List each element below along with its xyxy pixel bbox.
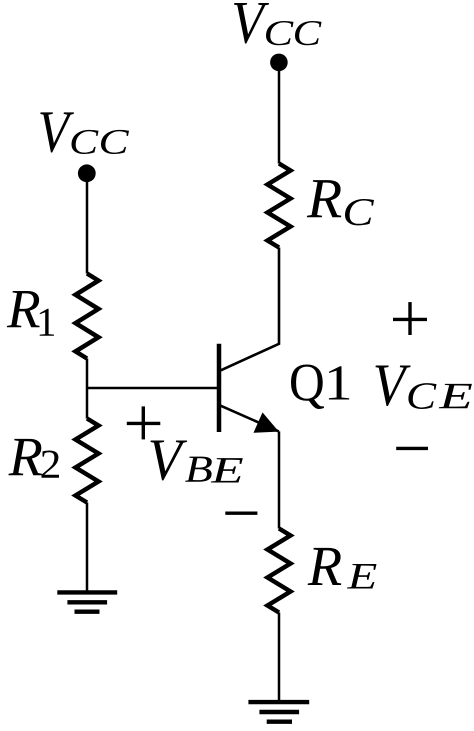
label VBE — [151, 441, 243, 483]
net VCC label (left) — [40, 112, 129, 154]
ground (right) — [248, 702, 309, 722]
resistor RE label — [308, 548, 377, 589]
net VCC label (top) — [234, 3, 322, 45]
transistor Q1 emitter arrow — [254, 412, 279, 432]
resistor RE — [268, 529, 291, 613]
net VCC terminal dot (left) — [78, 164, 96, 182]
wire VCC(left) to R1 top — [86, 173, 89, 274]
net VCC terminal dot (top) — [270, 54, 288, 72]
label VCE — [376, 366, 472, 410]
resistor RC — [268, 164, 291, 248]
ground (left) — [57, 592, 117, 611]
plus sign of VBE — [127, 406, 161, 439]
minus sign of VBE — [225, 512, 257, 515]
resistor R1 — [76, 274, 99, 359]
minus sign of VCE — [396, 447, 428, 450]
wire R1 bottom to node B and R2 top — [86, 359, 89, 419]
resistor R1 label — [7, 291, 54, 336]
transistor Q1 emitter line — [221, 406, 279, 432]
resistor R2 — [76, 419, 99, 503]
resistor R2 label — [8, 439, 59, 478]
resistor RC label — [307, 180, 374, 225]
wire VCC(top) to RC top — [278, 62, 281, 163]
wire RC bottom to collector of Q1 — [221, 248, 279, 371]
wire R2 bottom to ground — [86, 503, 89, 593]
plus sign of VCE — [393, 302, 427, 335]
wire node to transistor base — [87, 387, 217, 390]
transistor Q1 base bar — [217, 344, 222, 432]
wire emitter to RE top — [278, 431, 281, 528]
transistor Q1 label — [291, 365, 349, 410]
wire RE bottom to ground — [278, 613, 281, 703]
